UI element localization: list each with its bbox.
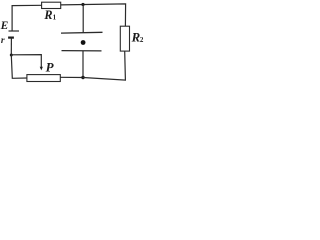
- wire node B to bottom-right corner up to R2 bottom: [83, 51, 125, 80]
- node C (junction dot at battery negative branch): [10, 54, 13, 57]
- capacitor bottom plate: [62, 50, 102, 52]
- resistor R1: [42, 2, 61, 8]
- battery E r (long positive plate): [9, 30, 20, 32]
- resistor R2: [120, 26, 129, 51]
- node B (junction dot on bottom wire): [81, 76, 84, 79]
- svg-text:R: R: [43, 8, 52, 22]
- rheostat P box: [27, 75, 60, 82]
- wiper arrowhead of P: [40, 67, 43, 71]
- svg-text:1: 1: [53, 13, 57, 21]
- svg-text:E: E: [0, 20, 9, 32]
- wire P right end to node B: [60, 76, 83, 78]
- wire top from R1 right to top-right corner: [61, 4, 126, 26]
- svg-text:P: P: [46, 59, 55, 74]
- wire from capacitor bottom plate down to node B: [82, 51, 84, 78]
- wire node C down to bottom-left corner and to P left end: [11, 55, 27, 78]
- wire from node A down to capacitor top plate: [82, 5, 84, 33]
- capacitor top plate: [61, 31, 103, 34]
- wire node C to wiper of P with arrow: [11, 55, 41, 68]
- wire top from battery positive to R1 left: [12, 5, 41, 31]
- svg-text:r: r: [1, 36, 5, 46]
- wire battery negative down to node C: [10, 38, 12, 55]
- svg-text:2: 2: [140, 36, 144, 44]
- battery E r (short thick negative plate): [8, 36, 14, 38]
- charged particle between plates: [81, 40, 86, 45]
- node A (junction dot on top wire): [81, 3, 84, 6]
